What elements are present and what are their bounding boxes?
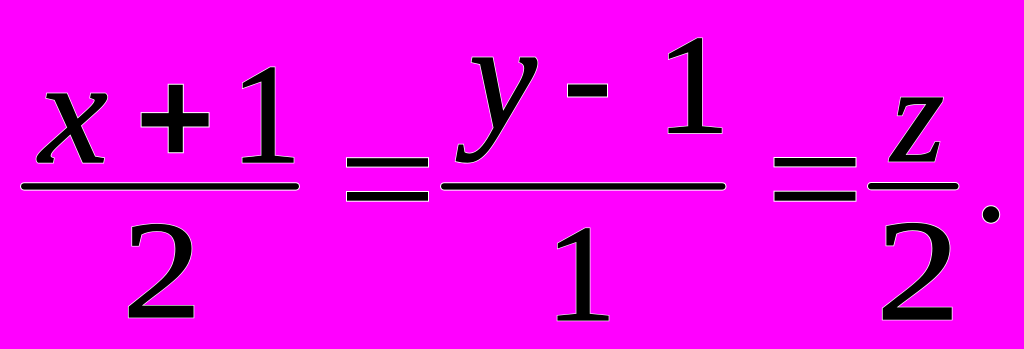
svg-text:2: 2 xyxy=(123,193,202,348)
numerator variable z xyxy=(889,39,944,191)
svg-text:1: 1 xyxy=(546,198,617,349)
fraction bar 3 xyxy=(868,183,959,189)
fraction bar 2 xyxy=(441,183,726,189)
denominator 1 (second fraction) xyxy=(546,198,617,349)
svg-text:2: 2 xyxy=(876,191,960,349)
numerator variable y xyxy=(456,0,537,163)
fraction bar 1 xyxy=(21,183,299,189)
numerator constant 1 (first fraction) xyxy=(231,35,302,193)
svg-text:1: 1 xyxy=(656,7,729,164)
svg-text:1: 1 xyxy=(231,35,302,193)
denominator 2 (third fraction) xyxy=(876,191,960,349)
numerator constant 1 (second fraction) xyxy=(656,7,729,164)
equals sign 2 bottom stroke xyxy=(775,192,856,201)
svg-text:y: y xyxy=(456,0,537,163)
numerator variable x xyxy=(37,30,108,194)
operator plus xyxy=(142,85,209,153)
equals sign 2 top stroke xyxy=(775,158,856,166)
equals sign 1 bottom stroke xyxy=(347,192,428,201)
sentence period xyxy=(983,206,999,222)
svg-text:z: z xyxy=(889,39,944,191)
operator minus xyxy=(568,85,607,97)
denominator 2 (first fraction) xyxy=(123,193,202,348)
svg-text:x: x xyxy=(37,30,108,194)
equals sign 1 top stroke xyxy=(347,158,428,166)
